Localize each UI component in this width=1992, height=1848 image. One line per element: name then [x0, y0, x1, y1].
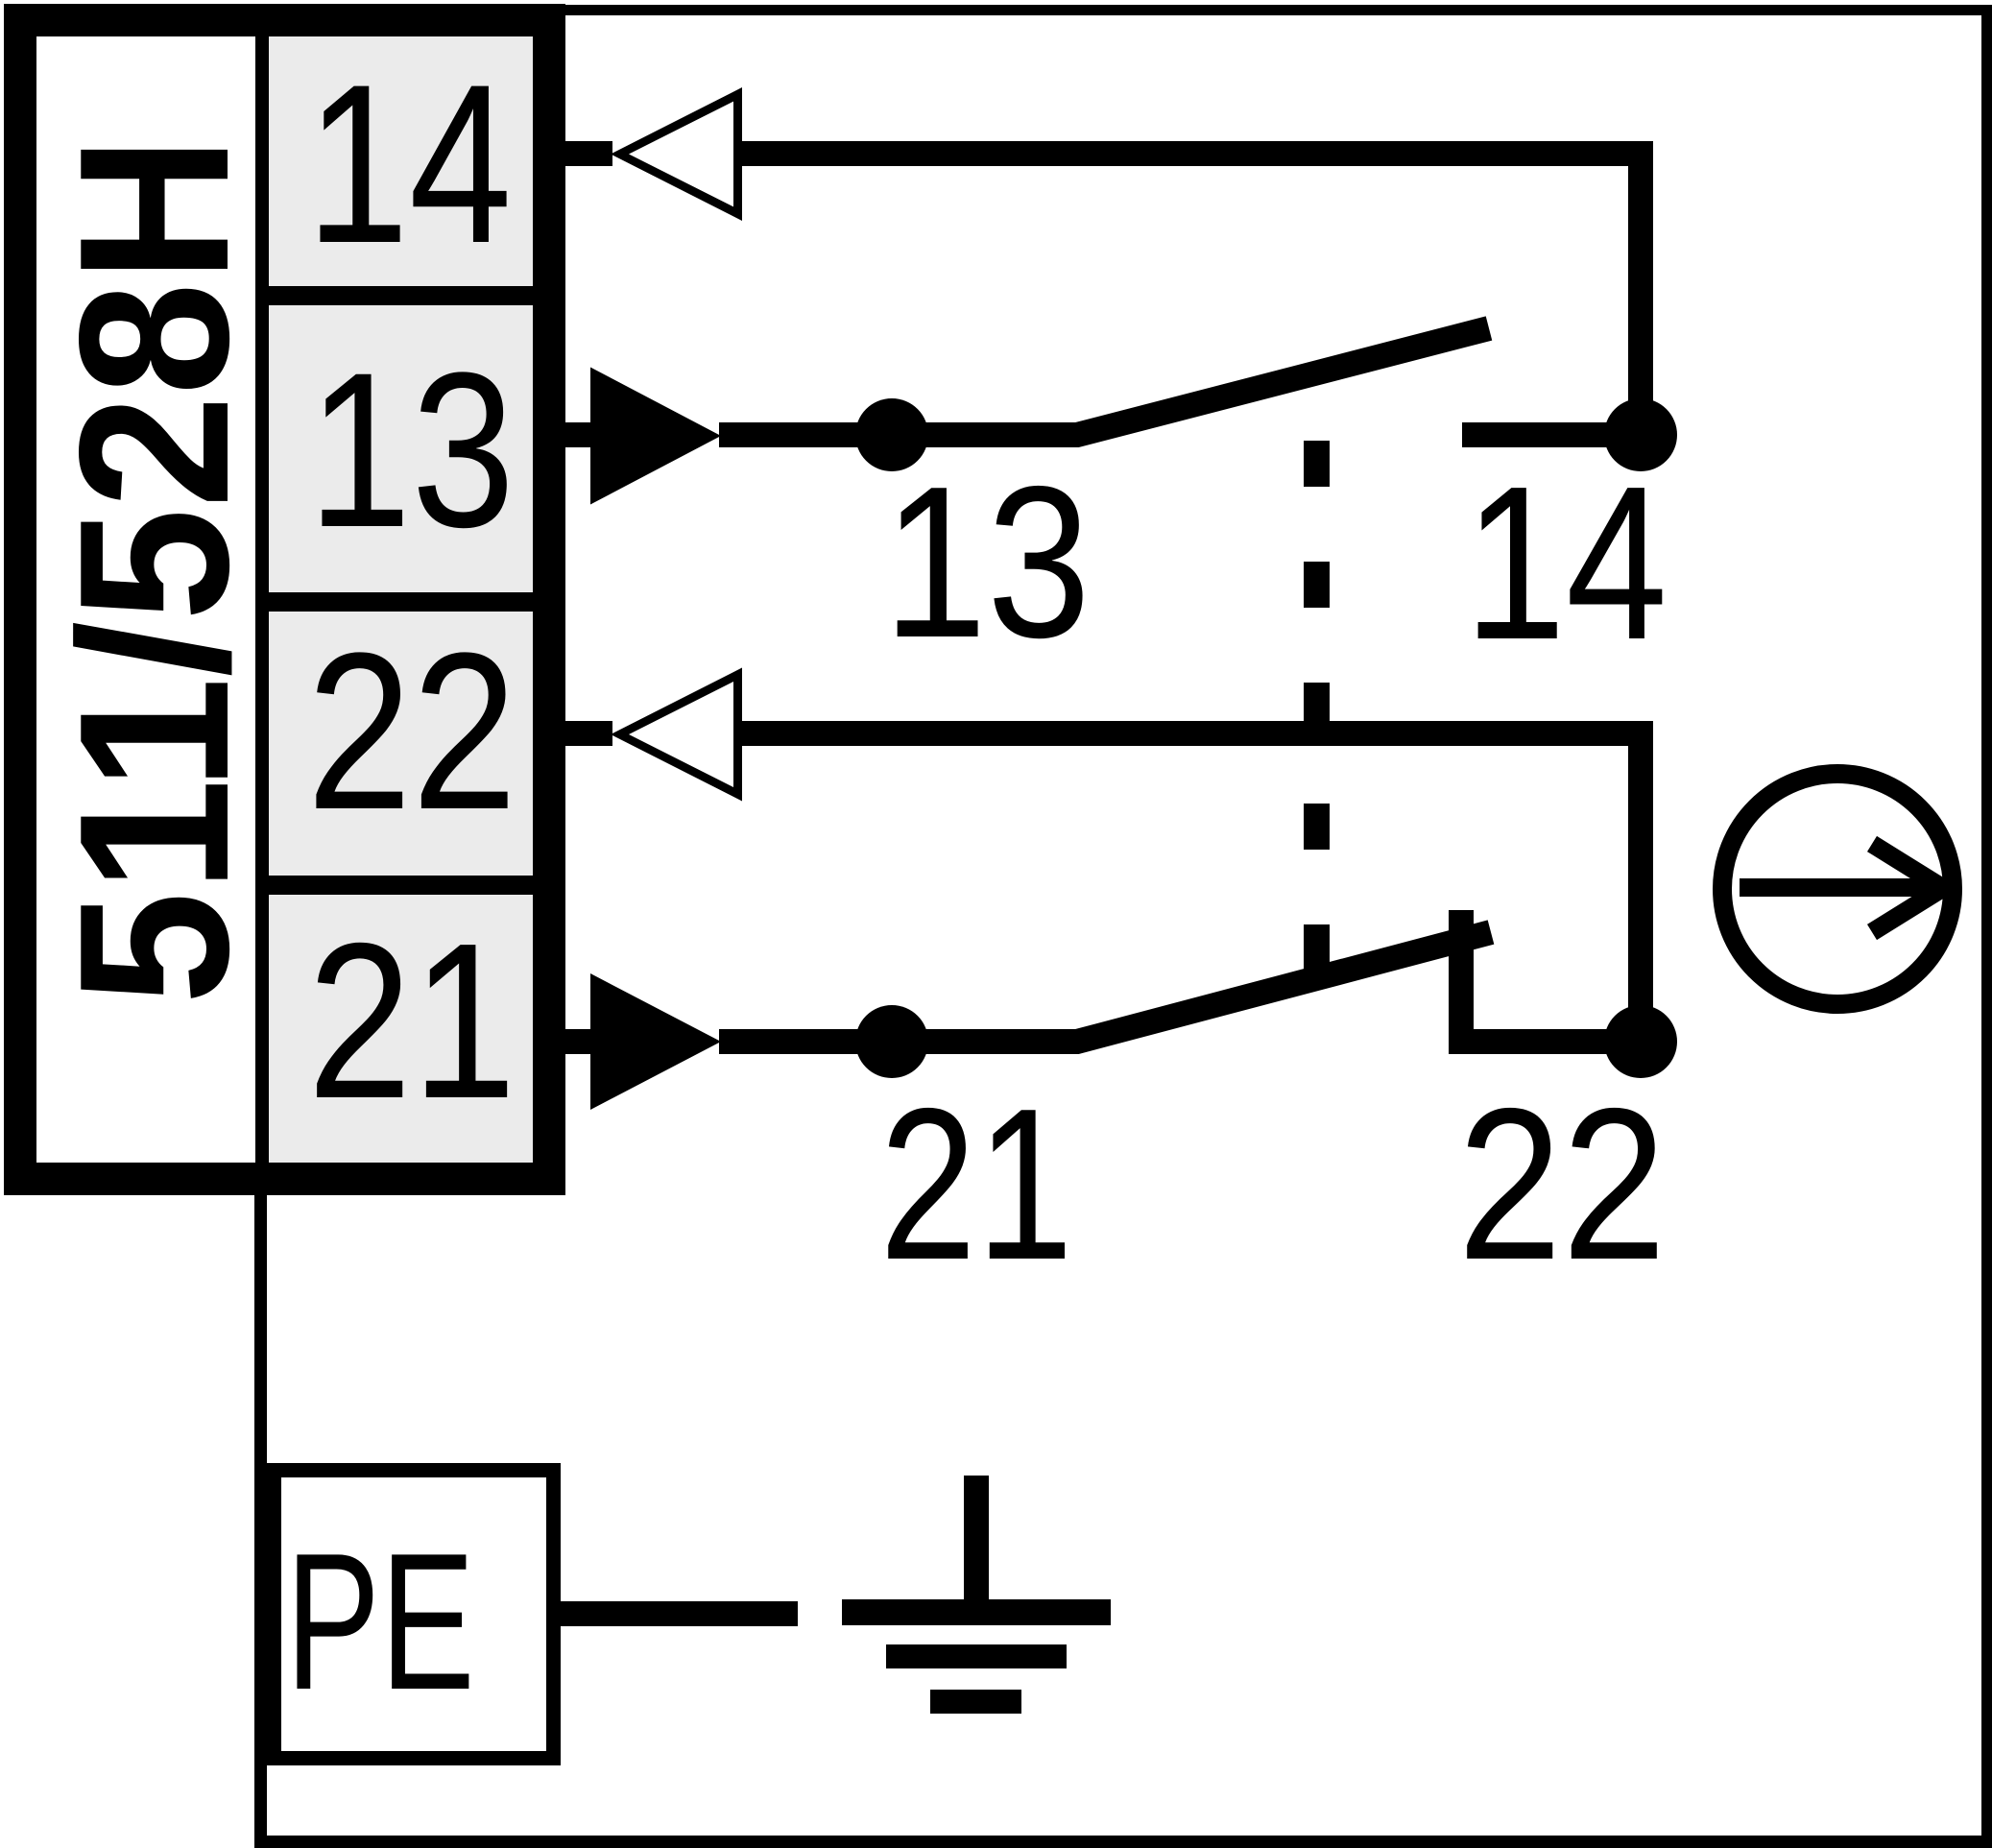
arrow (open) at terminal 14: [611, 87, 742, 221]
drawing frame left edge: [254, 1161, 267, 1848]
svg-text:22: 22: [1457, 1063, 1666, 1305]
cell separator 14/13: [255, 286, 533, 305]
node contact 22: [1604, 1005, 1677, 1078]
switch blade 13-14: [892, 328, 1489, 435]
ground symbol bar 1: [842, 1599, 1111, 1625]
mechanical linkage dashed line: [1304, 441, 1330, 487]
arrow (filled) at terminal 13: [590, 368, 721, 505]
wire stub terminal 22: [562, 721, 612, 746]
wire 22 horizontal: [733, 721, 1653, 746]
terminal column separator: [255, 36, 269, 1163]
ground symbol bar 3: [930, 1690, 1021, 1714]
svg-text:511/528H: 511/528H: [35, 136, 273, 1005]
svg-text:13: 13: [308, 326, 516, 573]
arrow (filled) at terminal 21: [590, 973, 721, 1110]
wire 14 horizontal: [733, 141, 1653, 166]
terminal cell 22: [269, 612, 533, 876]
actuation arrow shaft: [1740, 878, 1943, 897]
svg-text:22: 22: [307, 606, 517, 855]
wire 21 horizontal: [719, 1029, 892, 1054]
svg-text:21: 21: [307, 898, 516, 1145]
fixed contact hook 22: [1449, 910, 1474, 1054]
terminal cell 21: [269, 895, 533, 1163]
switch blade 21-22: [892, 932, 1491, 1042]
terminal cell 14: [269, 36, 533, 286]
node contact 13: [855, 398, 928, 471]
device box 511/528H outer border: [4, 4, 565, 1195]
cell separator 13/22: [255, 592, 533, 612]
wire stub terminal 14: [562, 141, 612, 166]
cell separator 22/21: [255, 876, 533, 895]
svg-text:14: 14: [1464, 441, 1668, 685]
wire 22 vertical drop: [1628, 721, 1653, 1042]
fixed contact stub 22: [1461, 1029, 1641, 1054]
drawing frame bottom edge: [254, 1836, 1992, 1848]
ground symbol stem: [964, 1476, 989, 1613]
fixed contact stub 14: [1462, 422, 1641, 447]
svg-text:PE: PE: [285, 1512, 474, 1730]
ground symbol bar 2: [886, 1644, 1067, 1668]
wire stub terminal 21: [562, 1029, 590, 1054]
wire 14 vertical drop: [1628, 141, 1653, 435]
svg-text:14: 14: [306, 36, 512, 290]
actuation arrow head: [1872, 844, 1943, 932]
drawing frame right edge: [1981, 5, 1992, 1848]
svg-text:13: 13: [883, 442, 1091, 683]
drawing frame top edge: [562, 5, 1992, 15]
wire PE: [561, 1601, 798, 1626]
node contact 21: [855, 1005, 928, 1078]
actuation direction symbol circle: [1722, 774, 1953, 1004]
terminal cell 13: [269, 305, 533, 592]
svg-text:21: 21: [879, 1064, 1073, 1305]
terminal box PE: [275, 1471, 554, 1759]
arrow (open) at terminal 22: [611, 668, 742, 802]
node contact 14: [1604, 398, 1677, 471]
wire stub terminal 13: [562, 422, 590, 447]
wire 13 horizontal: [719, 422, 892, 447]
